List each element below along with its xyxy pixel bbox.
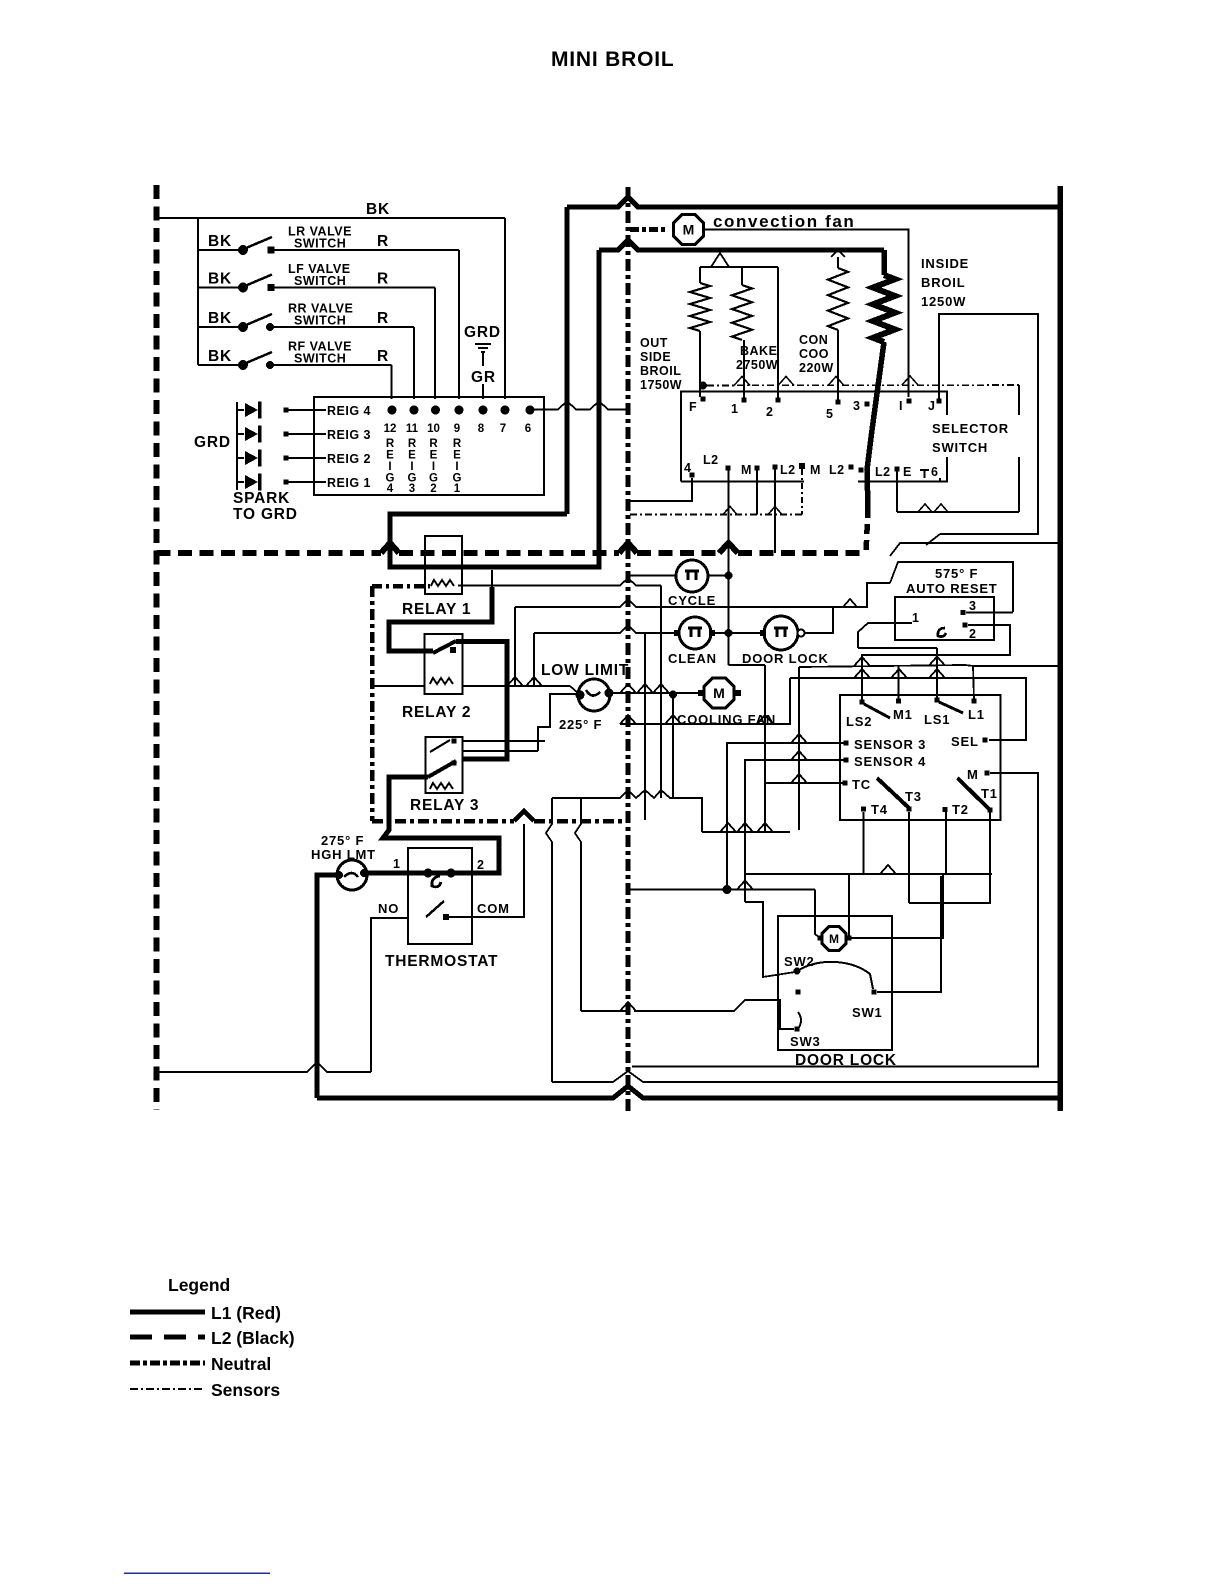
switch arm T3 <box>877 778 909 808</box>
pin M control <box>985 771 990 776</box>
pin TC <box>843 781 848 786</box>
pin SEL <box>983 738 988 743</box>
pin F selector <box>701 397 706 402</box>
pin 3 auto reset <box>961 610 966 615</box>
svg-text:NO: NO <box>378 901 399 916</box>
wire y607 row <box>515 599 833 607</box>
wire L1 pin feed <box>973 666 1060 699</box>
svg-text:L2: L2 <box>780 463 796 477</box>
wire L1 top horizontal <box>567 197 1060 207</box>
svg-text:SENSOR 4: SENSOR 4 <box>854 754 926 769</box>
svg-text:R: R <box>429 438 438 450</box>
svg-text:L2: L2 <box>703 453 719 467</box>
wire riser x581 <box>575 798 581 1011</box>
svg-text:GR: GR <box>471 369 496 386</box>
svg-text:1: 1 <box>393 857 400 871</box>
wire stepped mesh <box>552 790 702 832</box>
wire cycle left <box>630 575 676 577</box>
wire sensor line right drop <box>1018 385 1020 512</box>
svg-text:T2: T2 <box>952 802 969 817</box>
motor COOLING FAN <box>704 678 734 708</box>
legend L1 <box>130 1310 205 1315</box>
svg-text:INSIDE: INSIDE <box>921 256 969 271</box>
switch SW1 <box>872 990 877 995</box>
wire pin1 left <box>858 623 912 648</box>
svg-text:REIG 1: REIG 1 <box>327 476 371 490</box>
svg-text:SEL: SEL <box>951 734 979 749</box>
svg-text:THERMOSTAT: THERMOSTAT <box>385 953 498 970</box>
svg-text:AUTO RESET: AUTO RESET <box>906 581 998 596</box>
pin E selector <box>895 467 900 472</box>
wire SW3 feed <box>634 1000 794 1029</box>
wire SENSOR3 <box>727 743 846 890</box>
svg-text:Legend: Legend <box>168 1275 230 1295</box>
wire y889 <box>630 889 815 891</box>
wire SW1 link <box>877 876 941 992</box>
svg-text:220W: 220W <box>799 361 834 375</box>
svg-text:3: 3 <box>853 399 860 413</box>
wire x867 up link <box>867 583 890 607</box>
wire door lock right <box>804 607 868 633</box>
wire T3 drop <box>908 812 910 903</box>
pin LS1 <box>935 698 940 703</box>
pin LS2 <box>860 700 865 705</box>
svg-text:1: 1 <box>454 483 461 495</box>
wire L1 high limit right <box>364 871 480 876</box>
wire sensor line F row <box>699 382 707 390</box>
heater CON COO 220W <box>831 250 845 257</box>
svg-text:J: J <box>928 399 935 413</box>
door lock box <box>778 916 892 1050</box>
motor door lock M <box>822 927 846 951</box>
svg-text:F: F <box>689 400 697 414</box>
wire SW2 left <box>745 902 795 977</box>
svg-text:BK: BK <box>208 310 232 327</box>
pin 8 spark module <box>479 406 488 415</box>
svg-text:R: R <box>453 438 462 450</box>
svg-text:TC: TC <box>852 777 871 792</box>
wire SENSOR4 <box>745 760 846 902</box>
spark electrode REIG 2 <box>237 457 244 459</box>
wire L1 relay3 exit <box>383 777 499 873</box>
svg-text:GRD: GRD <box>464 324 501 341</box>
svg-text:TO GRD: TO GRD <box>233 506 298 523</box>
pin T3 <box>907 807 912 812</box>
svg-text:7: 7 <box>500 423 506 435</box>
wire TC <box>765 782 845 784</box>
svg-text:REIG 4: REIG 4 <box>327 404 371 418</box>
wire convection fan to pin I <box>705 230 909 398</box>
heater INSIDE BROIL 1250W <box>881 250 887 275</box>
pin 1 selector <box>742 398 747 403</box>
wire L1 row A <box>799 665 973 667</box>
spark electrode REIG 1 <box>237 481 244 483</box>
wire valve bus vertical <box>197 218 199 365</box>
wire pin4 left <box>630 478 692 501</box>
svg-text:SELECTOR: SELECTOR <box>932 421 1009 436</box>
svg-text:9: 9 <box>454 423 460 435</box>
svg-text:225° F: 225° F <box>559 717 602 732</box>
switch RR VALVE SWITCH <box>198 326 243 328</box>
svg-text:I: I <box>410 461 413 473</box>
svg-text:RELAY 3: RELAY 3 <box>410 797 479 814</box>
wire SEL loop <box>790 678 1026 740</box>
pin 6 spark module <box>526 406 535 415</box>
svg-text:RELAY 1: RELAY 1 <box>402 601 471 618</box>
svg-text:CLEAN: CLEAN <box>668 651 717 666</box>
wire L1 bottom horizontal <box>317 1086 1060 1098</box>
wire clean row <box>534 625 674 633</box>
wire L1 jog to relay block <box>390 250 599 567</box>
svg-text:T4: T4 <box>871 802 888 817</box>
relay switch RELAY 2 <box>425 634 463 694</box>
wire relay2 coil right to low limit <box>462 685 570 687</box>
pin 11 spark module <box>410 406 419 415</box>
lamp DOOR LOCK <box>764 616 798 650</box>
svg-text:SW2: SW2 <box>784 954 815 969</box>
svg-text:L2: L2 <box>829 463 845 477</box>
svg-text:L1: L1 <box>968 707 985 722</box>
svg-text:11: 11 <box>406 423 419 435</box>
relay coil RELAY 1 <box>425 536 462 594</box>
svg-text:DOOR LOCK: DOOR LOCK <box>742 651 829 666</box>
wire pin E drop <box>896 471 898 512</box>
wire T4 drop <box>863 812 865 874</box>
wire y1067 <box>632 1066 640 1068</box>
wire L2 to NO <box>157 1062 372 1072</box>
legend Sensors <box>130 1388 205 1390</box>
svg-text:BAKE: BAKE <box>740 344 777 358</box>
wire x730 link <box>729 664 766 666</box>
wire T2 drop <box>945 812 947 874</box>
svg-text:SWITCH: SWITCH <box>294 314 346 328</box>
pin T4 <box>861 807 866 812</box>
thermostat box <box>408 848 472 944</box>
svg-text:2: 2 <box>477 858 484 872</box>
legend L2 <box>130 1335 205 1340</box>
svg-text:I: I <box>899 399 903 413</box>
svg-text:2: 2 <box>766 405 773 419</box>
wire L1 right vertical bus <box>1057 186 1063 1111</box>
wire M left feed <box>815 890 820 939</box>
wire M pin loop <box>632 773 1038 1067</box>
wire neutral relay-block bottom <box>372 819 514 824</box>
switch LF VALVE SWITCH <box>198 287 243 289</box>
pin J selector <box>937 399 942 404</box>
svg-text:1750W: 1750W <box>640 378 682 392</box>
svg-text:Neutral: Neutral <box>211 1354 271 1374</box>
svg-text:COM: COM <box>477 901 510 916</box>
svg-text:SWITCH: SWITCH <box>294 237 346 251</box>
pin 9 spark module <box>455 406 464 415</box>
svg-text:BK: BK <box>366 201 390 218</box>
pin 5 selector <box>836 400 841 405</box>
pin SENSOR 3 <box>844 741 849 746</box>
svg-text:REIG 2: REIG 2 <box>327 452 371 466</box>
svg-text:1: 1 <box>731 402 738 416</box>
svg-text:I: I <box>388 461 391 473</box>
lamp CLEAN <box>679 617 711 649</box>
svg-text:575° F: 575° F <box>935 566 978 581</box>
switch RF VALVE SWITCH <box>198 364 243 366</box>
pin T2 <box>943 807 948 812</box>
wire spark gap bus <box>236 402 238 490</box>
svg-text:R: R <box>377 310 389 327</box>
svg-text:BROIL: BROIL <box>640 364 681 378</box>
wire neutral relay-block left vertical <box>370 586 375 821</box>
svg-text:10: 10 <box>427 423 440 435</box>
pin 4 selector <box>690 473 695 478</box>
svg-text:L1 (Red): L1 (Red) <box>211 1303 281 1323</box>
svg-text:I: I <box>432 461 435 473</box>
svg-text:DOOR LOCK: DOOR LOCK <box>795 1052 897 1069</box>
svg-text:R: R <box>377 233 389 250</box>
motor convection fan <box>673 214 703 244</box>
wire M1 feed <box>898 666 900 699</box>
svg-text:BROIL: BROIL <box>921 275 965 290</box>
svg-text:L2: L2 <box>875 465 891 479</box>
pin 2 selector <box>776 398 781 403</box>
wire L2 left vertical bus <box>154 185 160 1110</box>
svg-text:SWITCH: SWITCH <box>294 274 346 288</box>
svg-text:M1: M1 <box>893 707 913 722</box>
svg-text:3: 3 <box>969 599 976 613</box>
svg-text:M: M <box>741 463 752 477</box>
wire riser x552 <box>546 798 552 1082</box>
wire x645 drop <box>644 633 646 820</box>
svg-text:SENSOR 3: SENSOR 3 <box>854 737 926 752</box>
svg-text:LS1: LS1 <box>924 712 950 727</box>
wire element top link <box>700 266 778 268</box>
svg-text:M: M <box>713 685 725 701</box>
svg-text:SW1: SW1 <box>852 1005 883 1020</box>
pin 10 spark module <box>431 406 440 415</box>
wire M right link <box>851 874 943 938</box>
svg-text:6: 6 <box>931 465 938 479</box>
svg-text:R: R <box>386 438 395 450</box>
pin SENSOR 4 <box>844 758 849 763</box>
svg-text:M: M <box>683 222 695 238</box>
svg-text:convection fan: convection fan <box>713 212 855 231</box>
wire sensor dashdot bottom <box>630 514 802 516</box>
wire low limit right to cooling fan <box>609 692 701 694</box>
pin 2 auto reset <box>963 623 968 628</box>
switch SW3 <box>798 1012 801 1029</box>
wire pin6 to neutral <box>534 401 626 410</box>
svg-text:2: 2 <box>430 483 436 495</box>
svg-text:L2 (Black): L2 (Black) <box>211 1328 295 1348</box>
spark electrode REIG 4 <box>237 409 244 411</box>
svg-text:BK: BK <box>208 348 232 365</box>
wire neutral to relay1 coil <box>372 584 430 589</box>
wire pin J loop <box>939 314 1038 534</box>
switch arm T1 <box>958 778 991 810</box>
wire COM riser <box>449 824 524 917</box>
svg-text:M: M <box>829 932 839 946</box>
svg-text:4: 4 <box>387 483 394 495</box>
wire L2 horizontal bus <box>157 550 382 556</box>
pin L2b selector <box>773 465 778 470</box>
svg-text:E: E <box>453 450 461 462</box>
svg-text:COO: COO <box>799 347 829 361</box>
svg-text:CON: CON <box>799 333 828 347</box>
svg-text:I: I <box>455 461 458 473</box>
svg-text:BK: BK <box>208 271 232 288</box>
spark electrode REIG 3 <box>237 433 244 435</box>
wire selector bottom stubs <box>728 470 730 665</box>
svg-text:LS2: LS2 <box>846 714 872 729</box>
wire Neutral branch to convection fan <box>630 227 668 232</box>
svg-text:REIG 3: REIG 3 <box>327 428 371 442</box>
wire BK top <box>157 217 506 219</box>
wire cycle right <box>709 575 729 577</box>
pin M1 <box>896 699 901 704</box>
wire relay1 coil right <box>458 578 661 586</box>
svg-text:SPARK: SPARK <box>233 490 290 507</box>
wire L1 element feed horizontal <box>599 240 884 250</box>
wire aux y543 to L1 bus <box>890 543 1060 556</box>
lamp CYCLE <box>676 560 708 592</box>
svg-text:MINI BROIL: MINI BROIL <box>551 48 675 71</box>
svg-text:2750W: 2750W <box>736 358 778 372</box>
svg-text:M: M <box>967 767 979 782</box>
wire cooling fan drop <box>672 695 674 799</box>
wire L2b dashdot drop <box>801 469 803 515</box>
wire x661 drop <box>660 586 662 799</box>
wire T1 drop <box>909 812 990 903</box>
link underline <box>124 1572 270 1574</box>
svg-text:3: 3 <box>409 483 415 495</box>
wire neutral to relay2 coil <box>372 685 424 687</box>
wire pin2 loop <box>862 625 1010 701</box>
svg-text:SIDE: SIDE <box>640 350 671 364</box>
wire pin2 riser <box>777 267 779 398</box>
pin 3 selector <box>865 402 870 407</box>
switch LR VALVE SWITCH <box>198 249 243 251</box>
svg-text:BK: BK <box>208 233 232 250</box>
svg-text:E: E <box>903 465 912 479</box>
wire pin3 link <box>966 612 1013 614</box>
wire Neutral vertical bus <box>626 187 631 1111</box>
wire LS1 feed <box>858 647 937 649</box>
thermostat contact <box>426 901 444 917</box>
pin Ma selector <box>755 466 760 471</box>
heater BAKE 2750W <box>741 267 743 285</box>
svg-text:RELAY 2: RELAY 2 <box>402 704 471 721</box>
wire L1 relay chain <box>389 587 492 651</box>
svg-text:M: M <box>810 463 821 477</box>
svg-text:HGH LMT: HGH LMT <box>311 847 376 862</box>
heater OUT SIDE BROIL 1750W <box>699 267 701 283</box>
svg-text:12: 12 <box>384 423 397 435</box>
switch LOW LIMIT 225F <box>578 679 610 711</box>
svg-text:T3: T3 <box>905 789 922 804</box>
wire NO drop <box>371 918 408 1072</box>
svg-text:R: R <box>408 438 417 450</box>
svg-text:1: 1 <box>912 611 919 625</box>
wire L1 left vertical (spark feed) <box>565 207 570 514</box>
legend Neutral <box>130 1361 205 1366</box>
pin L2a selector <box>726 466 731 471</box>
pin 7 spark module <box>501 406 510 415</box>
svg-text:4: 4 <box>684 461 691 475</box>
control box <box>840 695 1001 820</box>
wire L1 high limit left <box>317 875 339 1098</box>
svg-text:2: 2 <box>969 627 976 641</box>
svg-text:SWITCH: SWITCH <box>294 352 346 366</box>
svg-text:CYCLE: CYCLE <box>668 593 716 608</box>
svg-text:8: 8 <box>478 423 485 435</box>
svg-text:5: 5 <box>826 407 833 421</box>
svg-text:E: E <box>386 450 394 462</box>
svg-text:6: 6 <box>525 423 531 435</box>
relay switch RELAY 3 <box>426 737 463 793</box>
wire low limit left <box>538 694 580 751</box>
wire y1082 <box>552 1071 1060 1082</box>
svg-text:275° F: 275° F <box>321 833 364 848</box>
pin 12 spark module <box>388 406 397 415</box>
svg-text:R: R <box>377 271 389 288</box>
pin I selector <box>907 399 912 404</box>
wire relay3 aux right <box>462 740 545 742</box>
pin 6 selector <box>920 470 929 478</box>
svg-text:Sensors: Sensors <box>211 1380 280 1400</box>
wire M right riser <box>848 874 850 936</box>
svg-text:LOW LIMIT: LOW LIMIT <box>541 662 629 679</box>
svg-text:1250W: 1250W <box>921 294 966 309</box>
svg-text:R: R <box>377 348 389 365</box>
spark module box <box>314 397 544 495</box>
selector switch box <box>681 392 947 482</box>
svg-text:OUT: OUT <box>640 336 668 350</box>
wire L1 relay1 drop <box>491 570 493 587</box>
svg-text:GRD: GRD <box>194 434 231 451</box>
svg-text:SW3: SW3 <box>790 1034 821 1049</box>
svg-text:T1: T1 <box>981 786 998 801</box>
thermal switch 575F AUTO RESET box <box>895 597 994 640</box>
svg-text:SWITCH: SWITCH <box>932 440 988 455</box>
svg-text:E: E <box>430 450 438 462</box>
pin L1 <box>972 699 977 704</box>
wire y874 <box>745 873 992 875</box>
svg-text:E: E <box>408 450 416 462</box>
wire right inner riser <box>947 533 1038 535</box>
